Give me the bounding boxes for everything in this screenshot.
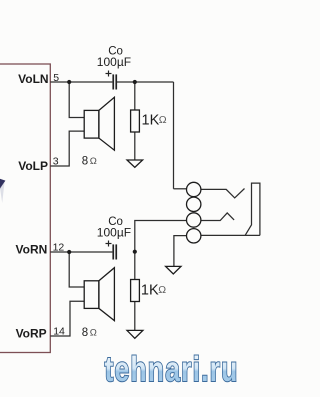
svg-text:Ω: Ω	[90, 156, 97, 167]
wire into jack circle 1	[174, 188, 187, 190]
polarity + C1	[106, 71, 112, 77]
wire capacitor C1 to right corner	[117, 81, 174, 83]
junction dot pin12 node	[67, 250, 71, 254]
svg-text:100µF: 100µF	[97, 226, 131, 240]
resistor R1	[131, 110, 140, 132]
wire pin3 to speaker LS1	[50, 131, 84, 166]
svg-text:1K: 1K	[142, 113, 160, 129]
wire junction B down to resistor R1	[134, 82, 136, 110]
ground GND1	[127, 160, 143, 167]
svg-text:100µF: 100µF	[97, 55, 131, 69]
junction dot pin5 node	[67, 80, 71, 84]
jack contact circle 2	[187, 197, 201, 211]
wire resistor R1 to ground	[134, 132, 136, 160]
logo V watermark (blue wedge at left edge)	[0, 179, 5, 189]
wire junction C down to speaker LS2	[69, 252, 84, 287]
wire pin5 to capacitor C1	[50, 81, 112, 83]
jack plug body J1	[245, 183, 260, 235]
wire vertical down to jack tip	[173, 82, 175, 189]
speaker LS2	[84, 268, 114, 321]
ground GND2	[127, 330, 143, 338]
wire junction A down to speaker LS1	[69, 82, 84, 118]
wire jack circle 3 to switch contact 2	[201, 213, 234, 221]
svg-text:8: 8	[82, 327, 88, 339]
wire jack circle 4 to ground	[174, 236, 187, 267]
jack contact circle 4 (sleeve)	[187, 229, 201, 243]
junction dot C2/R2 node	[133, 250, 137, 254]
wire resistor R2 to ground	[134, 302, 136, 331]
wire jack circle 4 to plug sleeve	[201, 234, 260, 236]
speaker LS1	[84, 97, 114, 150]
wire pin14 to speaker LS2	[50, 301, 84, 336]
jack contact circle 3 (ring R)	[187, 213, 201, 227]
polarity + C2	[106, 241, 112, 247]
wire junction D up to jack circle 3	[135, 221, 187, 252]
svg-text:tehnari.ru: tehnari.ru	[105, 349, 239, 388]
logo V watermark (faint tail)	[0, 182, 5, 204]
svg-text:Ω: Ω	[90, 327, 97, 338]
wire junction D down to resistor R2	[134, 252, 136, 280]
ground GND3 (jack)	[166, 266, 181, 274]
resistor R2	[131, 280, 140, 302]
svg-text:VoLN: VoLN	[18, 72, 48, 86]
wire pin12 to capacitor C2	[50, 251, 112, 253]
watermark tehnari.ru	[105, 349, 239, 388]
svg-text:VoLP: VoLP	[18, 159, 48, 173]
svg-text:Ω: Ω	[159, 114, 167, 126]
IC U1 (amplifier, red outline box)	[0, 64, 50, 353]
svg-text:1K: 1K	[141, 282, 159, 298]
jack contact circle 1 (tip L)	[187, 182, 201, 196]
svg-text:VoRN: VoRN	[16, 242, 48, 256]
capacitor C1 (Co 100uF) plates	[112, 74, 117, 89]
capacitor C2 (Co 100uF) plates	[112, 244, 117, 259]
svg-text:8: 8	[82, 156, 88, 168]
svg-text:VoRP: VoRP	[16, 327, 47, 341]
svg-text:Ω: Ω	[158, 284, 166, 296]
junction dot C1/R1 node	[133, 80, 137, 84]
wire jack circle 1 to switch contact 1	[201, 189, 245, 198]
